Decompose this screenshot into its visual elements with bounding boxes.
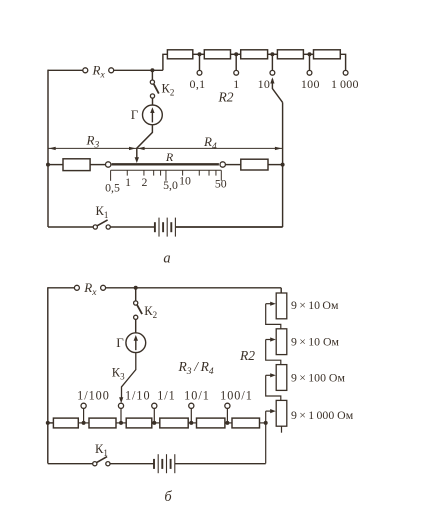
switch K1 blade (fig a) [97,220,107,226]
label 9x100 Ohm unit 3 (fig b) [291,371,345,385]
wire: chain link 4-5 (fig b) [188,422,196,424]
switch K3 wire from galvanometer (fig b) [122,353,136,399]
label 9x10 Ohm unit 2 (fig b) [291,334,340,348]
resistor R2 decade element 1 (fig a) [167,50,192,59]
node: bridge row to right wire junction (fig a) [281,163,285,167]
scale label 10 (fig a) [179,173,191,187]
svg-text:9 × 10 Ом: 9 × 10 Ом [291,334,340,348]
wire: slide wire to right resistor (fig a) [225,164,240,166]
wire: decade chain end down to 1000 tap (fig a) [340,54,345,70]
scale label 0,5 (fig a) [105,180,120,194]
wire: Rx to decade chain (fig b) [106,287,282,289]
resistor R3-R4 chain element 2 (fig b) [89,418,116,428]
label G (fig a) [131,107,139,122]
svg-text:Г: Г [116,335,124,350]
battery B (fig b) [154,454,175,473]
rheostat R2 decade unit 2 body (fig b) [276,329,287,355]
terminal Rx left (fig b) [74,285,79,290]
wire: chain link 5-6 (fig b) [225,422,232,424]
svg-text:100: 100 [301,77,320,91]
resistor right of slide wire (fig a) [241,159,268,170]
label 10 (fig a) [258,77,271,91]
wire between decade elements 3-4 (fig a) [268,53,278,55]
rheostat R2 decade unit 4 wiper arrow (fig b) [266,409,276,413]
wire: tap stub 0,1 (fig a) [199,54,201,70]
label 9x1000 Ohm unit 4 (fig b) [291,408,354,422]
svg-text:Rx: Rx [92,63,106,81]
wiper arrow onto slide wire R (fig a) [135,157,139,163]
terminal tap 1000 (fig a) [343,70,348,75]
label R2 (fig a) [218,90,234,105]
terminal Rx right (fig b) [101,285,106,290]
switch K1 contact left (fig b) [93,462,97,466]
slide wire R (fig a) [112,163,219,165]
wire: Rx to K2 junction (fig a) [114,69,163,71]
label G (fig b) [116,335,124,350]
node: chain junction 10/1 (fig b) [189,421,193,425]
galvanometer G needle arrow (fig b) [134,335,138,350]
label R2 (fig b) [239,348,255,363]
svg-text:R2: R2 [218,90,234,105]
node: chain junction at left wire (fig b) [46,421,50,425]
node: decade tap 1 junction (fig a) [234,52,238,56]
svg-text:9 × 10 Ом: 9 × 10 Ом [291,298,339,312]
dimension arrow left end R3 (fig a) [49,147,56,150]
terminal Rx right (fig a) [109,68,114,73]
wire: tap stub 1/100 (fig b) [83,408,85,423]
wire: tap stub 1/1 (fig b) [153,408,155,423]
terminal slide wire right (fig a) [220,162,225,167]
galvanometer G needle arrow (fig a) [150,107,154,122]
switch K2 blade (fig a) [154,84,159,94]
wire: fig a right vertical wire [282,102,284,227]
label 1 000 (fig a) [331,77,359,91]
label 100/1 (fig b) [220,388,253,402]
galvanometer G circle (fig a) [143,105,163,125]
scale label 5,0 (fig a) [163,178,178,192]
wire: chain link 2-3 (fig b) [116,422,126,424]
wire: fig a left vertical wire [47,70,49,227]
scale label 50 (fig a) [215,177,227,191]
wire: galvanometer to bridge wiper (fig a) [137,125,153,159]
svg-text:К3: К3 [112,365,125,381]
rheostat R2 decade unit 3 body (fig b) [276,365,287,391]
label 1/100 (fig b) [77,388,110,402]
rheostat R2 decade unit 1 wiper arrow (fig b) [266,302,276,306]
wire: K2 to galvanometer (fig a) [152,98,154,105]
resistor R2 decade element 5 (fig a) [314,50,341,59]
battery B (fig a) [155,218,176,237]
wire: fig a bottom wire left segment [48,226,93,228]
svg-text:0,1: 0,1 [190,77,206,91]
svg-text:К1: К1 [96,204,109,220]
wire: wiper of unit 2 to top of unit 3 (fig b) [266,340,281,365]
wire between decade elements 1-2 (fig a) [193,53,205,55]
resistor R2 decade element 2 (fig a) [204,50,230,59]
terminal tap 10/1 (fig b) [189,403,194,408]
resistor R3-R4 chain element 5 (fig b) [197,418,225,428]
wire: tap stub 1/10 (fig b) [120,408,122,423]
switch K2 upper wire (fig b) [135,288,137,301]
dimension line R3-R4 (fig a) [48,147,283,149]
selector arm arrow at tap 10 (fig a) [270,77,282,102]
wire: battery to right wire (fig a) [176,226,283,228]
switch K2 upper contact (fig a) [151,70,153,80]
label 100 (fig a) [301,77,320,91]
node: decade tap 0,1 junction (fig a) [198,52,202,56]
label 1 (fig a) [233,77,239,91]
terminal tap 1/1 (fig b) [152,403,157,408]
svg-text:а: а [163,251,170,267]
wire: top wire corner down to rheostat 1 (fig b) [280,288,282,293]
rheostat R2 decade unit 1 body (fig b) [276,293,287,319]
node: chain to rheostat wiper junction (fig b) [264,421,268,425]
label 1/10 (fig b) [125,388,151,402]
wire: tap stub 100 (fig a) [309,54,311,70]
node: junction of galvanometer branch (fig a) [150,68,154,72]
svg-text:Rx: Rx [83,280,97,298]
svg-text:R3: R3 [86,133,100,151]
resistor left of slide wire (fig a) [63,159,90,171]
terminal tap 0,1 (fig a) [197,70,202,75]
wire: wiper of unit 3 to top of unit 4 (fig b) [266,375,281,400]
wire: fig a top wire from corner to Rx terminal [48,69,83,71]
dimension arrow right end R3 (fig a) [129,147,136,150]
wire: battery to right corner (fig b) [175,463,266,465]
switch K1 contact left (fig a) [93,225,97,229]
switch K1 contact right (fig a) [106,225,110,229]
slide wire scale ruler (fig a) [111,170,222,181]
wire: tap stub 10 (fig a) [271,54,273,70]
resistor R3-R4 chain element 4 (fig b) [160,418,188,428]
dimension arrow left end R4 (fig a) [138,147,145,150]
label R3/R4 (fig b) [178,359,214,377]
svg-text:1/1: 1/1 [157,388,176,402]
node: chain junction 1/10 (fig b) [119,421,123,425]
svg-text:К2: К2 [162,82,175,98]
svg-text:К2: К2 [144,304,157,320]
svg-text:б: б [164,489,172,505]
terminal slide wire left (fig a) [106,162,111,167]
svg-text:Г: Г [131,107,139,122]
switch K2 contact circle top (fig b) [134,301,138,305]
label 0,1 (fig a) [190,77,206,91]
terminal tap 1/100 (fig b) [81,403,86,408]
node: chain junction 1/100 (fig b) [82,421,86,425]
svg-text:R2: R2 [239,348,255,363]
label 1/1 (fig b) [157,388,176,402]
wire: K1 to battery (fig a) [110,226,154,228]
svg-text:1/10: 1/10 [125,388,151,402]
wire: fig b bottom wire left segment [48,463,93,465]
svg-text:К1: К1 [95,442,108,458]
wire: chain link 3-4 (fig b) [152,422,160,424]
svg-text:10: 10 [258,77,271,91]
wire: wiper of unit 1 to top of unit 2 (fig b) [266,304,281,329]
rheostat R2 decade unit 4 body (fig b) [276,400,287,426]
node: decade tap 100 junction (fig a) [308,52,312,56]
wire: fig b top wire to Rx (fig b) [48,287,75,289]
svg-text:9 × 100 Ом: 9 × 100 Ом [291,371,345,385]
resistor R3-R4 chain element 3 (fig b) [126,418,152,428]
wire: up to R2 decade chain (fig a) [163,54,168,70]
scale label 1 (fig a) [125,175,131,189]
terminal Rx left (fig a) [83,68,88,73]
rheostat R2 decade unit 3 wiper arrow (fig b) [266,373,276,377]
switch K3 selector arrow at tap 1/10 (fig b) [119,397,123,403]
svg-text:100/1: 100/1 [220,388,253,402]
label K1 (fig a) [96,204,109,220]
resistor R3-R4 chain element 6 (fig b) [232,418,260,428]
label R3 dimension (fig a) [86,133,100,151]
wire between decade elements 2-3 (fig a) [231,53,241,55]
wire between decade elements 4-5 (fig a) [303,53,313,55]
svg-text:1/100: 1/100 [77,388,110,402]
terminal tap 10 (fig a) [270,70,275,75]
wire: resistor to slide wire terminal (fig a) [90,164,105,166]
galvanometer G circle (fig b) [126,333,146,353]
terminal tap 100/1 (fig b) [225,403,230,408]
wire: right resistor to right wire (fig a) [268,164,283,166]
switch K1 contact right (fig b) [106,462,110,466]
dimension arrow right end R4 (fig a) [275,147,282,150]
label Rx (fig a) [92,63,106,81]
resistor R3-R4 chain element 1 (fig b) [53,418,78,428]
svg-text:R3 / R4: R3 / R4 [178,359,214,377]
switch K2 blade (fig b) [137,305,142,314]
svg-text:2: 2 [141,175,147,189]
wire: fig a bottom wire right segment [176,226,283,228]
wire: left wire to chain resistor 1 (fig b) [48,422,54,424]
label K2 (fig a) [162,82,175,98]
resistor R2 decade element 4 (fig a) [277,50,303,59]
label a (figure a caption) [163,251,170,267]
node: decade tap 10 junction (fig a) [270,52,274,56]
wire: K1 to battery (fig b) [110,463,154,465]
wire: chain link 1-2 (fig b) [78,422,89,424]
wire: tap stub 1 (fig a) [235,54,237,70]
label K1 (fig b) [95,442,108,458]
svg-text:9 × 1 000 Ом: 9 × 1 000 Ом [291,408,354,422]
svg-text:1 000: 1 000 [331,77,359,91]
wire: fig b left vertical wire [47,287,49,463]
switch K2 contact circle bottom (fig a) [150,94,154,98]
node: chain junction 1/1 (fig b) [152,421,156,425]
scale label 2 (fig a) [141,175,147,189]
node: left wire to bridge row junction (fig a) [46,163,50,167]
wire: K2 to galvanometer (fig b) [135,319,137,333]
switch K2 contact circle bottom (fig b) [134,315,138,319]
node: chain junction 100/1 (fig b) [225,421,229,425]
wire: tap stub 100/1 (fig b) [226,408,228,423]
wire: rheostat unit 4 bottom stub (fig b) [281,426,283,433]
label K3 (fig b) [112,365,125,381]
label 10/1 (fig b) [184,388,210,402]
wire: left wire to resistor (fig a) [48,164,63,166]
label Rx (fig b) [83,280,97,298]
svg-text:1: 1 [233,77,239,91]
svg-text:R: R [165,150,174,164]
switch K1 blade (fig b) [97,457,107,463]
label b (figure b caption) [164,489,172,505]
terminal tap 100 (fig a) [307,70,312,75]
svg-text:R4: R4 [203,134,217,152]
rheostat R2 decade unit 2 wiper arrow (fig b) [266,337,276,341]
wire: chain element 6 to rheostat junction (fig b) [260,422,266,424]
node: junction galvanometer branch (fig b) [134,286,138,290]
svg-text:10/1: 10/1 [184,388,210,402]
wire: unit 4 wiper down to chain junction and bottom wire (fig b) [265,411,267,463]
terminal tap 1 (fig a) [234,70,239,75]
terminal tap 1/10 (fig b) [118,403,123,408]
wire: tap stub 10/1 (fig b) [190,408,192,423]
label R above slide wire (fig a) [165,150,174,164]
resistor R2 decade element 3 (fig a) [241,50,268,59]
switch K2 contact circle top (fig a) [150,80,154,84]
svg-text:50: 50 [215,177,227,191]
label R4 dimension (fig a) [203,134,217,152]
svg-text:0,5: 0,5 [105,180,120,194]
svg-text:10: 10 [179,173,191,187]
svg-text:1: 1 [125,175,131,189]
label K2 (fig b) [144,304,157,320]
svg-text:5,0: 5,0 [163,178,178,192]
label 9x10 Ohm unit 1 (fig b) [291,298,339,312]
